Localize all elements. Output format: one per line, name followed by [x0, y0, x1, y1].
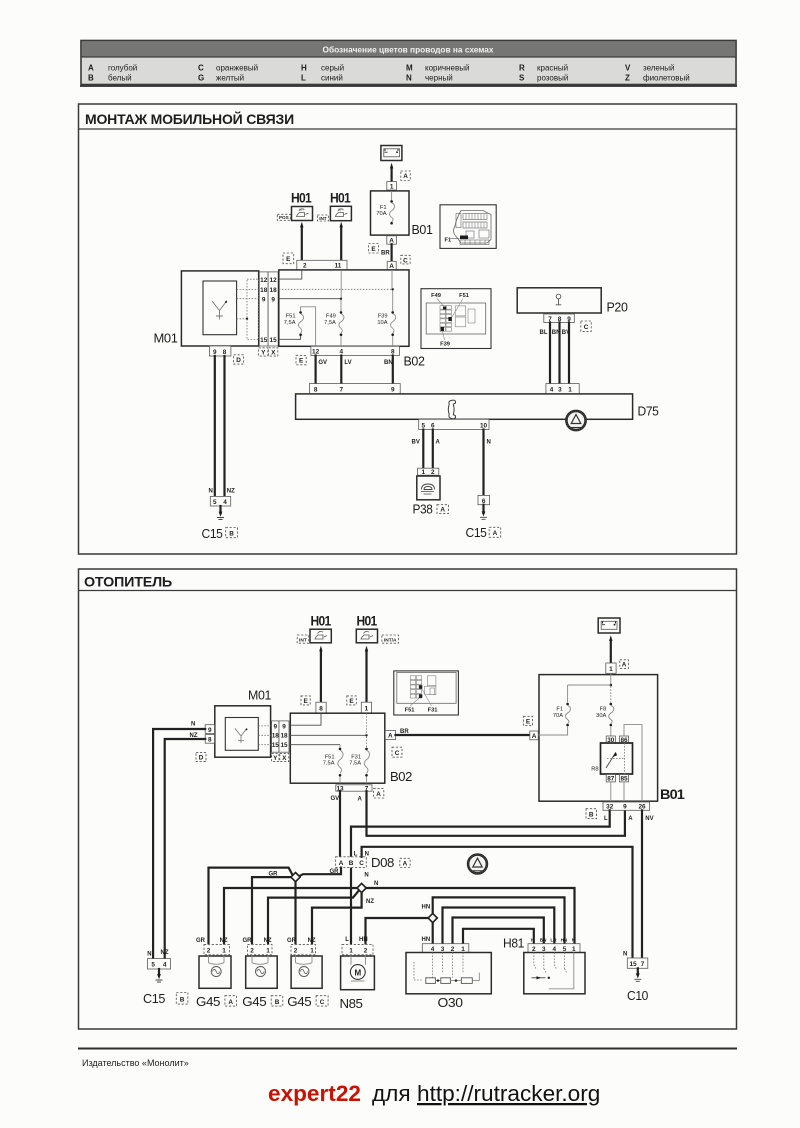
- fuse box B01: [371, 191, 410, 235]
- svg-text:2: 2: [532, 946, 536, 953]
- svg-text:1: 1: [365, 706, 369, 713]
- wire pin1 to F1/F8 inside B01: [568, 673, 613, 686]
- connector strip B02 bottom pins 13 7: [336, 785, 372, 793]
- svg-text:G45: G45: [196, 994, 220, 1009]
- node C label (section 2): [392, 747, 402, 757]
- svg-text:BN: BN: [552, 330, 561, 336]
- svg-text:B02: B02: [404, 354, 425, 369]
- node E label (left of pin 8): [301, 696, 310, 705]
- svg-text:BL: BL: [540, 330, 548, 336]
- wire to H01 INT with arrow (section 2): [319, 646, 322, 703]
- svg-text:5: 5: [422, 422, 426, 429]
- svg-text:H81: H81: [503, 936, 524, 951]
- svg-text:9: 9: [262, 296, 266, 303]
- svg-text:P38: P38: [413, 502, 433, 517]
- pin 8 of M01 left: [205, 735, 214, 744]
- lamp G45 B: [242, 938, 283, 1009]
- wire LV: [341, 356, 351, 384]
- svg-text:C15: C15: [202, 526, 223, 541]
- fuse F1 70A (section 2): [538, 685, 571, 735]
- svg-text:INT: INT: [299, 208, 304, 212]
- wire GR to G45 A: [196, 868, 292, 945]
- svg-text:C: C: [198, 64, 204, 73]
- relay R8: [591, 743, 632, 774]
- footer rule: [78, 1048, 737, 1050]
- svg-text:H01: H01: [311, 614, 332, 629]
- svg-text:H01: H01: [291, 191, 312, 206]
- svg-text:C: C: [584, 324, 589, 331]
- svg-text:B: B: [229, 530, 234, 537]
- svg-text:F1: F1: [445, 238, 452, 244]
- svg-text:7,5A: 7,5A: [349, 761, 361, 767]
- node C label: [401, 255, 410, 264]
- svg-text:1: 1: [568, 387, 572, 394]
- svg-text:L: L: [354, 851, 358, 857]
- wire to H01 POS with arrow: [300, 222, 303, 261]
- svg-text:BR: BR: [400, 729, 409, 735]
- legend table frame: [80, 41, 737, 87]
- wire NZ (M01 to C15 B section 2): [165, 733, 206, 959]
- connector strip B01 bottom pins 32 9 26: [603, 802, 650, 811]
- svg-text:7,5A: 7,5A: [324, 320, 336, 326]
- node D label: [234, 355, 244, 364]
- svg-text:F51: F51: [286, 314, 296, 320]
- svg-text:LV: LV: [344, 360, 351, 366]
- svg-text:L: L: [604, 816, 608, 822]
- connector strip M01 bottom pins 9 8: [209, 346, 231, 356]
- svg-text:Обозначение цветов проводов на: Обозначение цветов проводов на схемах: [322, 44, 493, 54]
- node E label (B02 top): [283, 253, 294, 264]
- lamp symbol H01 INT (section 2): [310, 614, 332, 643]
- svg-text:B: B: [349, 860, 354, 867]
- svg-text:G: G: [198, 74, 204, 83]
- svg-text:S: S: [519, 74, 525, 83]
- M01 internal dashed links: [237, 288, 259, 290]
- wire to H01 INT/A with arrow: [365, 646, 368, 703]
- wire pin2 to pin12 inside B02: [279, 270, 302, 279]
- svg-text:P20: P20: [607, 300, 628, 315]
- svg-text:1: 1: [422, 469, 426, 476]
- connector strip B02 bottom pins 12 4 8: [311, 346, 400, 355]
- svg-text:H01: H01: [357, 614, 378, 629]
- inset fuse-location B02 (section 2 dashboard box): [394, 671, 459, 715]
- svg-text:8: 8: [314, 387, 318, 394]
- svg-text:http://rutracker.org: http://rutracker.org: [417, 1081, 600, 1106]
- pin 9 of M01 left: [205, 725, 214, 734]
- wire N (D08 C up to C10 pin 15): [362, 847, 633, 958]
- junction diamond GR: [291, 873, 300, 882]
- ground C15 B: [202, 506, 238, 541]
- node A label (battery section 2): [620, 660, 629, 669]
- ground C15 A: [466, 505, 501, 540]
- svg-text:A: A: [622, 662, 627, 669]
- svg-text:9: 9: [623, 804, 627, 811]
- wire pin8 to row9 inside B02: [290, 713, 321, 725]
- wire L (D08 B to N85 pin1) label: [345, 937, 349, 943]
- svg-text:GV: GV: [331, 796, 340, 802]
- svg-text:D08: D08: [371, 855, 394, 870]
- svg-text:NV: NV: [645, 816, 653, 822]
- svg-text:1: 1: [349, 948, 353, 955]
- wire N (M01 to C15 B section 2): [153, 722, 205, 959]
- svg-text:70A: 70A: [376, 211, 386, 217]
- connector strip P20 pins 7 8 9: [544, 314, 575, 323]
- wire battery feed arrow: [390, 163, 393, 190]
- svg-text:HN: HN: [422, 905, 431, 911]
- svg-text:30A: 30A: [596, 713, 606, 719]
- ignition switch M01 (section 2): [215, 688, 272, 758]
- svg-text:2: 2: [250, 948, 254, 955]
- section frame МОНТАЖ МОБИЛЬНОЙ СВЯЗИ: [79, 104, 737, 554]
- svg-text:N: N: [623, 952, 627, 958]
- svg-text:5: 5: [563, 946, 567, 953]
- svg-text:1: 1: [222, 948, 226, 955]
- fuse box B02: [279, 270, 409, 346]
- svg-text:оранжевый: оранжевый: [216, 64, 258, 73]
- svg-text:2: 2: [364, 948, 368, 955]
- svg-text:NZ: NZ: [190, 733, 198, 739]
- svg-text:BV: BV: [562, 330, 570, 336]
- wire BL: [540, 322, 551, 383]
- svg-text:H01: H01: [330, 191, 351, 206]
- svg-text:C15: C15: [143, 991, 165, 1006]
- svg-text:18: 18: [272, 733, 280, 740]
- svg-text:15: 15: [630, 961, 638, 968]
- svg-text:11: 11: [335, 263, 342, 270]
- connector strip D75 top pins 4 3 1: [546, 384, 579, 394]
- wire to H01 INT with arrow: [340, 222, 343, 261]
- svg-text:N: N: [406, 74, 412, 83]
- ground C10: [627, 968, 648, 1003]
- svg-text:4: 4: [431, 946, 435, 953]
- svg-text:4: 4: [223, 499, 227, 506]
- svg-text:N: N: [364, 872, 368, 878]
- pin 1 of B02 top (section 2): [361, 702, 371, 713]
- svg-text:9: 9: [271, 296, 275, 303]
- ground C15 B (section 2): [143, 969, 188, 1006]
- svg-text:E: E: [349, 698, 354, 705]
- connector strip D75 bottom pins 5 6 10: [419, 419, 489, 429]
- svg-text:M01: M01: [248, 688, 271, 703]
- svg-text:INT: INT: [338, 208, 343, 212]
- svg-text:F49: F49: [431, 293, 441, 299]
- svg-text:A: A: [493, 530, 498, 537]
- svg-text:черный: черный: [425, 74, 453, 83]
- telephone control unit D75: [296, 394, 659, 419]
- node A label (P38): [437, 505, 449, 514]
- node B label (B01 bottom): [586, 809, 597, 819]
- svg-text:X: X: [282, 755, 287, 762]
- svg-text:A: A: [376, 791, 381, 798]
- node E label (B02 bottom): [296, 355, 306, 364]
- wire 86 to pin 26 inside B01: [624, 725, 642, 802]
- svg-text:18: 18: [270, 287, 278, 294]
- wire HN (N85 pin2 to diamond to O30 pin4 and H81 pin5): [359, 897, 565, 944]
- svg-text:85: 85: [620, 776, 628, 783]
- svg-text:NZ: NZ: [308, 938, 316, 944]
- wire NZ (diamond to G45 B): [268, 891, 374, 944]
- pin A of B02 top: [387, 261, 396, 270]
- svg-text:N: N: [374, 881, 378, 887]
- svg-text:серый: серый: [321, 64, 344, 73]
- battery (section 2): [598, 618, 620, 633]
- svg-text:9: 9: [274, 723, 278, 730]
- pin 85 of relay: [619, 775, 628, 783]
- wire O30 pin3 to H81 pin4: [443, 908, 555, 945]
- svg-text:H: H: [301, 64, 307, 73]
- svg-text:HN: HN: [422, 937, 431, 943]
- svg-text:3: 3: [558, 387, 562, 394]
- wire GV (B02 pin13 to D08 A): [331, 791, 341, 857]
- svg-text:NZ: NZ: [264, 938, 272, 944]
- svg-text:GV: GV: [318, 360, 327, 366]
- svg-text:E: E: [526, 719, 531, 726]
- svg-text:5: 5: [213, 499, 217, 506]
- svg-text:M01: M01: [154, 331, 178, 346]
- pin A on B02 right edge: [385, 730, 395, 739]
- svg-text:ОТОПИТЕЛЬ: ОТОПИТЕЛЬ: [84, 575, 173, 590]
- wire BR (B01 to B02): [381, 244, 392, 261]
- wire NZ (M01 to C15 B): [225, 356, 236, 496]
- svg-text:D75: D75: [638, 404, 659, 419]
- wire 87 to pin 32 inside B01: [610, 782, 612, 801]
- fuse F31 7.5A: [349, 737, 369, 784]
- node INT label (section 2): [297, 635, 309, 644]
- svg-text:BN: BN: [540, 938, 547, 943]
- phone handset icon in D75: [448, 400, 455, 419]
- svg-text:N: N: [209, 489, 213, 495]
- wire GR to G45 B: [243, 877, 291, 944]
- svg-text:GR: GR: [287, 938, 297, 944]
- svg-text:коричневый: коричневый: [425, 64, 469, 73]
- connector strip D75 top pins 8 7 9: [309, 384, 400, 394]
- svg-text:15: 15: [260, 337, 268, 344]
- svg-text:HN: HN: [561, 938, 568, 943]
- svg-text:HN: HN: [359, 937, 368, 943]
- node C label (P20): [581, 321, 591, 331]
- fuse F8 30A: [596, 686, 614, 736]
- svg-text:МОНТАЖ МОБИЛЬНОЙ СВЯЗИ: МОНТАЖ МОБИЛЬНОЙ СВЯЗИ: [85, 112, 294, 127]
- pin A on B01 left edge: [530, 731, 538, 740]
- lamp symbol H01 POS: [291, 191, 313, 221]
- inset fuse-location B01 (engine bay box): [440, 205, 496, 249]
- fuse box B02 (section 2): [290, 713, 385, 783]
- svg-text:B01: B01: [660, 787, 685, 802]
- svg-text:Издательство «Монолит»: Издательство «Монолит»: [82, 1058, 189, 1068]
- connector strip M01 right (pins 9 18 15, columns Y X): [272, 721, 289, 752]
- svg-text:B: B: [275, 999, 280, 1006]
- svg-text:Y: Y: [273, 755, 278, 762]
- svg-text:A: A: [339, 860, 344, 867]
- wire row18 to F31/pin1 inside B02: [290, 713, 367, 736]
- svg-text:A: A: [532, 733, 537, 740]
- svg-text:A: A: [228, 999, 233, 1006]
- fuse/relay box B01 (section 2): [539, 675, 658, 802]
- logo emblem (publisher mark on D75): [566, 411, 585, 430]
- fuse F51 7.5A: [279, 307, 316, 347]
- svg-text:A: A: [88, 64, 94, 73]
- svg-text:7: 7: [641, 961, 645, 968]
- junction diamond N: [357, 872, 369, 892]
- wire BV (P20): [562, 322, 570, 383]
- svg-text:A: A: [628, 816, 633, 822]
- node INT/A label: [382, 635, 399, 644]
- node A label (below B02): [374, 789, 384, 798]
- node D label (section 2): [196, 752, 206, 761]
- wire N (C15 to diamond to H81 pin1): [224, 881, 575, 944]
- pin 86 of relay: [619, 736, 628, 744]
- node X label: [269, 348, 278, 357]
- svg-text:1: 1: [266, 948, 270, 955]
- svg-text:E: E: [371, 246, 376, 253]
- svg-text:G45: G45: [242, 994, 266, 1009]
- svg-text:E: E: [299, 358, 304, 365]
- svg-text:8: 8: [208, 737, 212, 744]
- svg-text:N: N: [191, 722, 195, 728]
- svg-text:LR: LR: [550, 938, 557, 943]
- svg-text:2: 2: [303, 263, 307, 270]
- svg-text:INT: INT: [319, 216, 327, 221]
- node INT label: [317, 215, 328, 221]
- heater control switch H81: [503, 936, 585, 994]
- svg-text:F51: F51: [405, 707, 415, 713]
- fuse F1 location mark: [460, 236, 468, 240]
- svg-text:для: для: [372, 1081, 411, 1106]
- svg-text:F31: F31: [428, 707, 438, 713]
- svg-text:2: 2: [451, 946, 455, 953]
- svg-text:87: 87: [607, 776, 615, 783]
- svg-text:18: 18: [280, 733, 288, 740]
- svg-text:зеленый: зеленый: [643, 64, 675, 73]
- svg-text:A: A: [388, 733, 393, 740]
- node E label (B01 left): [524, 716, 533, 725]
- wire GR (D08 A to distribution diamond): [297, 868, 341, 878]
- svg-text:F49: F49: [326, 314, 336, 320]
- wire BN: [384, 356, 393, 384]
- wire L (B01 pin32 to D08 B to N85): [351, 810, 610, 944]
- svg-text:BV: BV: [412, 440, 420, 446]
- svg-text:2: 2: [207, 948, 211, 955]
- svg-text:L: L: [345, 937, 349, 943]
- svg-text:N85: N85: [340, 996, 363, 1011]
- svg-text:O30: O30: [438, 995, 463, 1010]
- logo emblem (publisher mark section 2): [468, 855, 487, 874]
- wire row 9 to F49/pin 11 inside B02: [279, 270, 342, 300]
- svg-text:1: 1: [461, 946, 465, 953]
- svg-text:8: 8: [319, 706, 323, 713]
- svg-text:G45: G45: [287, 994, 311, 1009]
- key symbol inside M01 (section 2): [235, 728, 247, 743]
- svg-text:X: X: [271, 349, 276, 356]
- svg-text:7: 7: [340, 387, 344, 394]
- wire N (D75 to C15): [484, 430, 491, 496]
- wire BR (B02 to B01 section 2): [396, 729, 530, 735]
- svg-text:F31: F31: [351, 754, 361, 760]
- svg-text:B01: B01: [412, 222, 433, 237]
- svg-text:C: C: [320, 999, 325, 1006]
- svg-text:C: C: [359, 860, 364, 867]
- connector strip B02 top pins 2 and 11: [297, 260, 347, 270]
- svg-text:Z: Z: [625, 74, 630, 83]
- node Y label: [259, 348, 268, 357]
- svg-text:голубой: голубой: [108, 64, 137, 73]
- connector C10 pins 15 7: [623, 952, 648, 969]
- svg-text:E: E: [286, 256, 291, 263]
- svg-text:красный: красный: [537, 64, 568, 73]
- svg-text:R: R: [519, 64, 525, 73]
- lamp G45 C: [287, 938, 328, 1009]
- svg-text:желтый: желтый: [216, 74, 244, 83]
- svg-text:N: N: [365, 851, 369, 857]
- inset fuse-location B02 (dashboard box): [421, 289, 491, 349]
- microphone P20: [517, 288, 627, 315]
- svg-text:1: 1: [609, 666, 613, 673]
- svg-text:INT/A: INT/A: [384, 638, 397, 644]
- svg-text:F51: F51: [325, 754, 335, 760]
- svg-text:3: 3: [542, 946, 546, 953]
- pin 1 of B01 top (section 2): [606, 663, 616, 673]
- svg-text:9: 9: [208, 727, 212, 734]
- lamp symbol H01 INT/A (section 2): [356, 614, 377, 643]
- svg-text:D: D: [199, 755, 204, 762]
- wire A (D75 to P38): [433, 430, 441, 469]
- node E label (left of pin 1): [347, 696, 357, 705]
- svg-text:12: 12: [270, 277, 278, 284]
- svg-text:F1: F1: [556, 707, 563, 713]
- svg-text:BR: BR: [381, 251, 390, 257]
- svg-text:C: C: [403, 257, 408, 264]
- svg-text:A: A: [358, 797, 363, 803]
- svg-text:INT: INT: [299, 638, 307, 644]
- wire 85 to pin 9 inside B01: [623, 782, 625, 801]
- svg-text:B: B: [589, 812, 594, 819]
- svg-text:NZ: NZ: [366, 899, 374, 905]
- svg-text:N: N: [487, 440, 491, 446]
- wire NZ (diamond to G45 C): [312, 893, 362, 945]
- svg-text:9: 9: [282, 723, 286, 730]
- svg-text:BN: BN: [384, 360, 393, 366]
- svg-text:B: B: [88, 74, 94, 83]
- svg-text:4: 4: [550, 387, 554, 394]
- node A (battery connector): [401, 171, 411, 181]
- svg-text:B02: B02: [390, 769, 412, 784]
- legend codes row 1: [88, 64, 675, 73]
- svg-text:2: 2: [294, 948, 298, 955]
- svg-text:GR: GR: [330, 869, 340, 875]
- node Y label (section 2): [272, 753, 279, 762]
- key symbol inside M01: [212, 301, 227, 320]
- fuse F51 7.5A (section 2): [323, 745, 343, 783]
- svg-text:F8: F8: [600, 707, 607, 713]
- wire O30 pin2 to H81 pin3: [453, 918, 544, 945]
- connector strip P38 pins 1 2: [418, 468, 439, 476]
- legend codes row 2: [88, 74, 690, 83]
- svg-text:6: 6: [431, 422, 435, 429]
- svg-text:фиолетовый: фиолетовый: [643, 74, 690, 83]
- pin 87 of relay: [606, 775, 615, 783]
- node E label: [369, 244, 379, 254]
- svg-text:3: 3: [441, 946, 445, 953]
- svg-text:A: A: [436, 440, 441, 446]
- pin 1 of B01: [387, 182, 397, 191]
- ignition switch M01: [154, 271, 259, 346]
- svg-text:1: 1: [310, 948, 314, 955]
- svg-text:C15: C15: [466, 525, 487, 540]
- svg-text:NZ: NZ: [220, 938, 228, 944]
- wire A (B02 pin7 to B01 pin9): [358, 791, 625, 836]
- connector strip D08 pins A B C: [336, 851, 410, 870]
- svg-text:A: A: [440, 507, 445, 514]
